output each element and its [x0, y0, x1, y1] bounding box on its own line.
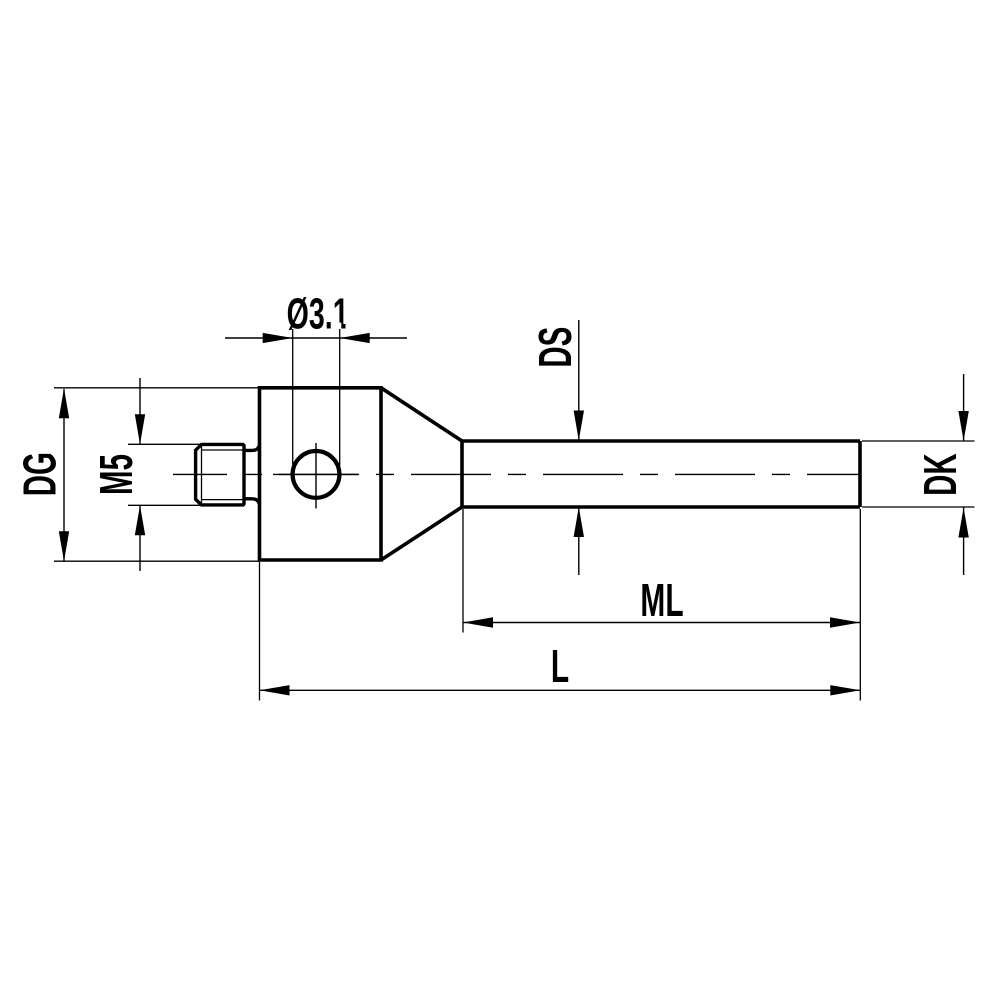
dim L / ML shared right extension line: [859, 509, 861, 701]
dim L left arrow: [260, 685, 290, 695]
threaded stub M5 outline: [196, 444, 244, 505]
shaft (shank): [462, 441, 860, 507]
dim DG extension lines: [54, 388, 259, 561]
centerline (dash-dot axis): [173, 473, 859, 475]
svg-text:DG: DG: [15, 452, 66, 496]
svg-text:ML: ML: [640, 576, 683, 627]
dim M5 dimension line: [139, 378, 141, 571]
dim DS top arrow: [574, 411, 584, 441]
dim ML left arrow: [463, 617, 493, 627]
thread minor diameter thin lines: [201, 445, 243, 505]
dim DS dimension line: [578, 320, 580, 575]
svg-text:DS: DS: [530, 327, 581, 368]
dim M5 top arrow: [135, 414, 145, 444]
svg-text:L: L: [551, 642, 569, 693]
dim DK top arrow: [958, 411, 968, 441]
dim L extension line left: [259, 562, 261, 701]
dim ML dimension line: [463, 622, 860, 624]
dim L dimension line: [260, 689, 861, 691]
hole circle: [293, 451, 340, 498]
cone transition: [381, 388, 462, 560]
neck between stub and body: [244, 446, 259, 504]
dim DS bottom arrow: [574, 507, 584, 537]
dim DG top arrow: [59, 388, 69, 418]
dim DK bottom arrow: [958, 508, 968, 538]
dim Ø3.1 dimension line: [225, 337, 407, 339]
dim ML right arrow: [830, 617, 860, 627]
dim ML extension line left: [462, 509, 464, 633]
dim L right arrow: [830, 685, 860, 695]
svg-text:DK: DK: [916, 453, 967, 496]
dim Ø3.1 extension lines: [293, 329, 340, 466]
dim DK dimension line: [963, 374, 965, 575]
wire hole crosshair horizontal: [273, 473, 358, 475]
dim Ø3.1 right arrow: [340, 333, 370, 343]
dim DG dimension line: [63, 389, 65, 561]
body block outline: [260, 388, 382, 560]
dim Ø3.1 left arrow: [263, 333, 293, 343]
dim DG bottom arrow: [59, 531, 69, 561]
wire hole crosshair vertical: [315, 443, 317, 509]
dim DK extension lines: [862, 441, 975, 507]
dim M5 bottom arrow: [135, 505, 145, 535]
svg-text:M5: M5: [92, 454, 143, 495]
dim M5 extension lines: [128, 444, 245, 505]
